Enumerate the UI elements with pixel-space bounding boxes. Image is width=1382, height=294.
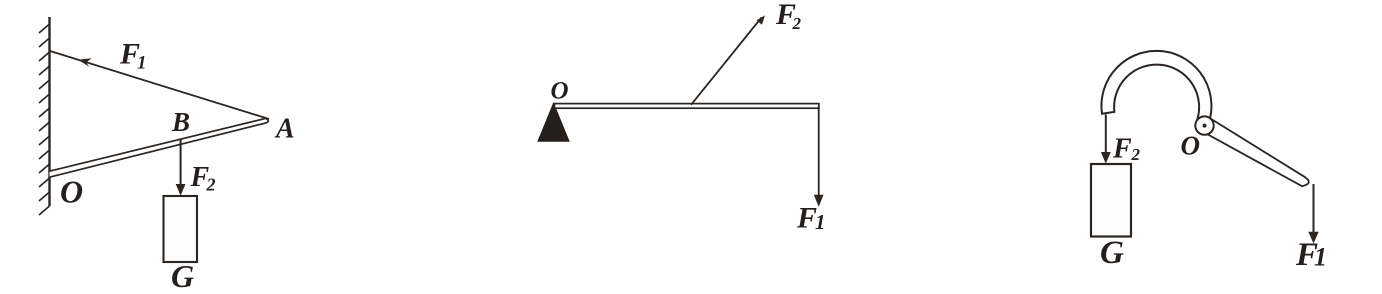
F1 arrowhead (diagram 3) bbox=[1308, 232, 1318, 244]
F1 arrowhead bbox=[78, 58, 92, 67]
F2 arrowhead (diagram 3) bbox=[1101, 152, 1111, 164]
label F2 (diagram 2) bbox=[775, 0, 802, 33]
label F1 (diagram 3) bbox=[1295, 237, 1327, 273]
svg-text:F: F bbox=[796, 202, 817, 235]
F2 arrow line at B bbox=[180, 139, 182, 186]
svg-text:B: B bbox=[171, 107, 190, 137]
F2 arrowhead (diagram 2) bbox=[757, 15, 765, 24]
curved arm (annular arch) bbox=[1101, 51, 1211, 127]
svg-text:2: 2 bbox=[206, 175, 216, 195]
F1 arrowhead (diagram 2) bbox=[814, 195, 824, 207]
svg-text:O: O bbox=[551, 78, 569, 105]
F1 force line (A to wall) bbox=[50, 51, 269, 119]
pivot center dot bbox=[1203, 124, 1207, 128]
label F2 (diagram 1) bbox=[190, 162, 216, 195]
svg-text:1: 1 bbox=[137, 53, 147, 74]
pivot circle O bbox=[1195, 116, 1213, 134]
weight G rectangle (diagram 1) bbox=[164, 196, 198, 262]
label F2 (diagram 3) bbox=[1112, 134, 1141, 165]
svg-text:A: A bbox=[274, 114, 295, 145]
F2 arrowhead (diagram 1) bbox=[176, 184, 186, 196]
F2 arrow line (diagram 3) bbox=[1105, 115, 1107, 154]
svg-text:2: 2 bbox=[792, 14, 802, 33]
wall hatching bbox=[39, 24, 50, 215]
beam bbox=[555, 104, 819, 109]
F1 force line bbox=[818, 106, 820, 196]
wall line bbox=[48, 17, 50, 206]
label F1 (diagram 1) bbox=[119, 38, 147, 74]
svg-text:2: 2 bbox=[1131, 145, 1141, 164]
svg-text:O: O bbox=[60, 174, 83, 210]
rod O to A (wedge) bbox=[50, 118, 269, 177]
svg-text:1: 1 bbox=[815, 210, 826, 234]
svg-text:O: O bbox=[1181, 131, 1201, 161]
F2 force line bbox=[691, 18, 762, 105]
svg-text:F: F bbox=[1112, 134, 1132, 165]
pivot triangle bbox=[537, 102, 570, 142]
svg-text:1: 1 bbox=[1314, 243, 1327, 272]
F1 arrow line (diagram 3) bbox=[1313, 184, 1315, 233]
weight G rectangle (diagram 3) bbox=[1091, 164, 1131, 237]
svg-text:G: G bbox=[171, 258, 194, 289]
label F1 (diagram 2) bbox=[796, 202, 826, 235]
svg-text:G: G bbox=[1100, 235, 1124, 271]
rod from pivot to tip bbox=[1208, 120, 1309, 187]
